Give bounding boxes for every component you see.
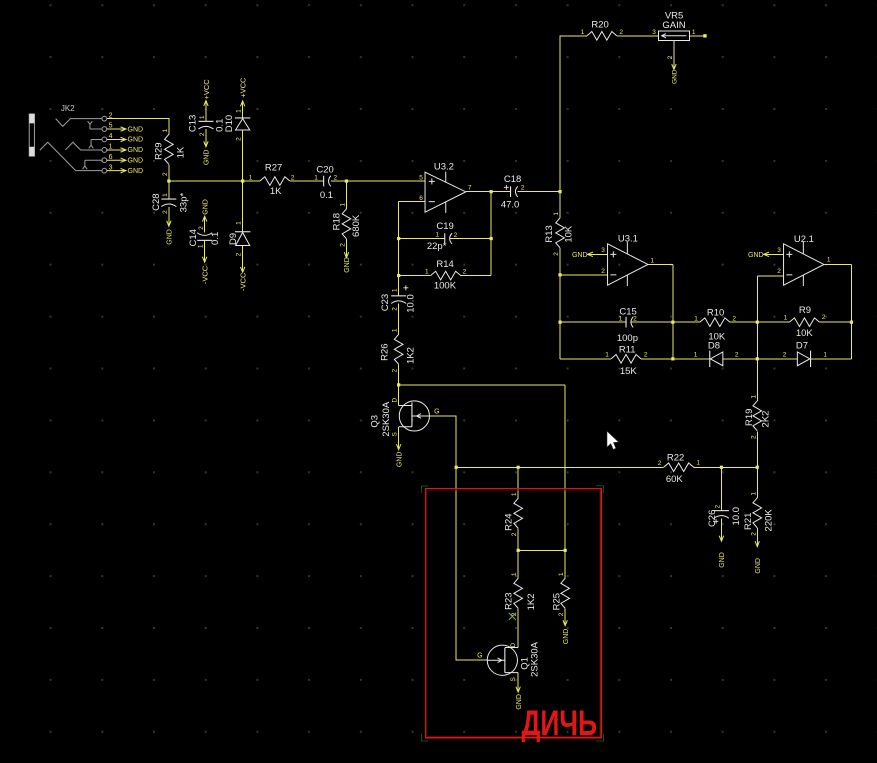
svg-text:10.0: 10.0 bbox=[406, 294, 417, 313]
svg-text:2: 2 bbox=[162, 210, 169, 214]
resistor R18 bbox=[345, 181, 347, 209]
ground port below R25 bbox=[564, 608, 566, 625]
svg-text:R29: R29 bbox=[153, 142, 164, 159]
svg-text:2: 2 bbox=[658, 460, 662, 467]
svg-text:3: 3 bbox=[601, 247, 605, 254]
-VCC power port below D9 bbox=[242, 246, 244, 272]
svg-text:1: 1 bbox=[236, 109, 243, 113]
svg-text:S: S bbox=[510, 676, 517, 681]
svg-text:1: 1 bbox=[558, 572, 565, 576]
svg-text:1: 1 bbox=[249, 174, 253, 181]
node R10 right bbox=[756, 321, 759, 324]
svg-text:2: 2 bbox=[735, 352, 739, 359]
wire C23 to R26 bbox=[398, 303, 400, 334]
diode D7 bbox=[757, 358, 797, 360]
svg-text:C20: C20 bbox=[316, 165, 333, 176]
mouse cursor bbox=[607, 431, 619, 450]
svg-text:U2.1: U2.1 bbox=[794, 234, 814, 245]
svg-text:680K: 680K bbox=[351, 214, 362, 237]
svg-text:C28: C28 bbox=[151, 193, 162, 210]
highlight box inner shadow bbox=[427, 490, 600, 737]
svg-text:7: 7 bbox=[468, 185, 472, 192]
svg-text:2: 2 bbox=[511, 532, 518, 536]
svg-text:GND: GND bbox=[572, 252, 588, 259]
svg-text:1: 1 bbox=[619, 315, 623, 322]
svg-text:2: 2 bbox=[644, 352, 648, 359]
wire R26 to Q3 drain node bbox=[398, 364, 400, 385]
wire U2.1 pin2 bbox=[757, 275, 783, 277]
wire JK2 pin2 to R29 bbox=[107, 119, 169, 135]
svg-text:D9: D9 bbox=[228, 233, 239, 245]
node R13 to U3.1 inverting input bbox=[558, 273, 561, 276]
svg-text:2: 2 bbox=[553, 252, 560, 256]
capacitor C28 bbox=[168, 181, 170, 199]
svg-text:2: 2 bbox=[463, 268, 467, 275]
svg-text:GND: GND bbox=[719, 552, 726, 568]
ground port below C28 bbox=[168, 207, 170, 226]
svg-text:2: 2 bbox=[340, 243, 347, 247]
svg-text:1: 1 bbox=[827, 256, 831, 263]
svg-text:R23: R23 bbox=[503, 592, 514, 609]
svg-text:GND: GND bbox=[128, 137, 144, 144]
svg-text:C23: C23 bbox=[380, 294, 391, 311]
resistor R21 bbox=[756, 467, 758, 498]
svg-text:C26: C26 bbox=[707, 510, 718, 527]
wire U2.1 output bbox=[824, 263, 852, 265]
svg-text:R19: R19 bbox=[744, 409, 755, 426]
svg-text:100p: 100p bbox=[617, 333, 638, 344]
svg-text:1: 1 bbox=[784, 314, 788, 321]
svg-text:R26: R26 bbox=[379, 343, 390, 360]
wire U2.1 output column bbox=[850, 264, 852, 358]
capacitor C15 bbox=[560, 321, 626, 323]
svg-text:1: 1 bbox=[823, 352, 827, 359]
ground port at U3.1 pin3 bbox=[588, 253, 608, 255]
resistor R26 bbox=[394, 334, 403, 364]
svg-text:C13: C13 bbox=[188, 115, 199, 132]
svg-text:2: 2 bbox=[392, 368, 399, 372]
node R24 top bbox=[517, 466, 520, 469]
svg-text:15K: 15K bbox=[620, 366, 638, 377]
svg-text:1: 1 bbox=[694, 352, 698, 359]
svg-text:60K: 60K bbox=[666, 474, 684, 485]
capacitor C23 bbox=[391, 295, 406, 297]
node Q3 drain bbox=[397, 383, 400, 386]
svg-text:+VCC: +VCC bbox=[239, 77, 248, 98]
svg-text:G: G bbox=[434, 409, 439, 416]
svg-text:Q3: Q3 bbox=[370, 415, 381, 428]
svg-text:S: S bbox=[392, 431, 399, 436]
svg-text:G: G bbox=[477, 653, 482, 660]
svg-text:GND: GND bbox=[344, 257, 351, 273]
wire R20 to VR5 pin3 bbox=[617, 35, 658, 37]
JK2 tip contact arm bbox=[56, 119, 102, 127]
svg-text:ДИЧЬ: ДИЧЬ bbox=[522, 704, 598, 743]
node gate column / R22 row bbox=[455, 466, 458, 469]
svg-text:1: 1 bbox=[605, 352, 609, 359]
wire R29 to input node bbox=[168, 164, 170, 181]
capacitor C14 bbox=[197, 233, 212, 236]
op-amp U2.1 bbox=[784, 244, 824, 285]
svg-text:1: 1 bbox=[236, 221, 243, 225]
svg-text:1: 1 bbox=[650, 257, 654, 264]
svg-text:2: 2 bbox=[236, 137, 243, 141]
wire feedback right column bbox=[490, 192, 492, 276]
resistor R22 bbox=[664, 463, 694, 472]
op-amp U3.2 bbox=[425, 172, 466, 212]
svg-text:2: 2 bbox=[392, 307, 399, 311]
selection corner marks bbox=[422, 486, 604, 741]
wire VR5 pin2 to ground bbox=[673, 40, 675, 69]
svg-text:1K2: 1K2 bbox=[526, 593, 537, 610]
svg-text:2: 2 bbox=[777, 268, 781, 275]
svg-text:10K: 10K bbox=[563, 225, 574, 243]
svg-text:R25: R25 bbox=[551, 593, 562, 610]
op-amp U3.1 bbox=[608, 244, 648, 285]
svg-text:2: 2 bbox=[558, 612, 565, 616]
svg-text:D10: D10 bbox=[224, 115, 235, 132]
svg-text:1: 1 bbox=[392, 288, 399, 292]
svg-text:C19: C19 bbox=[436, 221, 453, 232]
svg-text:2: 2 bbox=[750, 532, 757, 536]
svg-text:2: 2 bbox=[601, 268, 605, 275]
wire C20 to U3.2 pin5 bbox=[331, 180, 425, 182]
svg-text:GND: GND bbox=[396, 452, 403, 468]
wire node row in box bbox=[518, 549, 565, 551]
svg-text:1K: 1K bbox=[175, 146, 186, 158]
svg-text:R13: R13 bbox=[544, 225, 555, 242]
svg-text:C18: C18 bbox=[504, 174, 521, 185]
ground port at U2.1 pin3 bbox=[764, 253, 784, 255]
wire VR5 pin1 stub bbox=[690, 35, 704, 37]
capacitor C13 bbox=[198, 120, 213, 122]
wire C18 to gain node bbox=[518, 191, 560, 193]
svg-text:2: 2 bbox=[291, 174, 295, 181]
svg-text:2: 2 bbox=[667, 55, 674, 59]
svg-text:2: 2 bbox=[783, 352, 787, 359]
svg-text:1: 1 bbox=[199, 115, 206, 119]
wire input bus to R27 bbox=[169, 180, 260, 182]
node input junction at R29/C28 bbox=[167, 179, 170, 182]
ERC marker at R23 pin2 bbox=[509, 613, 516, 620]
wire Q1 source to ground bbox=[517, 673, 519, 692]
svg-text:GND: GND bbox=[204, 150, 211, 166]
ground port below R21 bbox=[756, 528, 758, 547]
capacitor C18 bbox=[510, 186, 512, 197]
diode D10 bbox=[242, 101, 244, 118]
wire drain down to Q3 bbox=[398, 385, 400, 406]
node R19/R21/R22 bbox=[756, 466, 759, 469]
transistor Q1 2SK30A bbox=[487, 645, 517, 675]
svg-text:1: 1 bbox=[198, 244, 205, 248]
ground port below R18 bbox=[345, 239, 347, 258]
svg-text:3: 3 bbox=[652, 29, 656, 36]
wire R22 row bbox=[456, 466, 663, 468]
svg-text:JK2: JK2 bbox=[61, 104, 75, 113]
svg-text:0.1: 0.1 bbox=[210, 232, 221, 245]
svg-text:6: 6 bbox=[419, 195, 423, 202]
resistor R13 bbox=[559, 192, 561, 218]
svg-text:R24: R24 bbox=[503, 513, 514, 530]
resistor R11 bbox=[560, 358, 611, 360]
node gain column bbox=[558, 190, 561, 193]
svg-text:R14: R14 bbox=[436, 259, 453, 270]
node R24/R23 bbox=[517, 549, 520, 552]
svg-text:1: 1 bbox=[392, 328, 399, 332]
svg-text:1K: 1K bbox=[270, 186, 282, 197]
svg-text:1: 1 bbox=[162, 193, 169, 197]
node C19 left bbox=[397, 237, 400, 240]
wire R23 to Q1 drain bbox=[517, 608, 519, 647]
svg-text:2: 2 bbox=[454, 232, 458, 239]
ground port below C13 bbox=[205, 129, 207, 146]
svg-text:GND: GND bbox=[672, 69, 679, 84]
svg-text:1K2: 1K2 bbox=[405, 347, 416, 364]
wire D10 to input bus bbox=[242, 130, 244, 181]
svg-text:2: 2 bbox=[199, 132, 206, 136]
svg-text:GND: GND bbox=[128, 147, 144, 154]
svg-text:D8: D8 bbox=[708, 341, 720, 352]
transistor Q3 2SK30A bbox=[399, 401, 429, 431]
resistor R23 bbox=[517, 550, 519, 578]
svg-text:GND: GND bbox=[755, 558, 762, 574]
svg-text:1: 1 bbox=[425, 269, 429, 276]
svg-text:R9: R9 bbox=[799, 305, 811, 316]
svg-text:22p*: 22p* bbox=[427, 241, 447, 252]
capacitor C19 bbox=[399, 238, 445, 240]
svg-text:100K: 100K bbox=[434, 280, 457, 291]
svg-text:R18: R18 bbox=[332, 213, 343, 230]
resistor R10 bbox=[673, 321, 700, 323]
resistor R20 bbox=[587, 32, 617, 41]
JK2 ring contact arm bbox=[65, 142, 102, 150]
svg-text:-VCC: -VCC bbox=[239, 272, 248, 291]
svg-text:0.1: 0.1 bbox=[320, 190, 333, 201]
svg-text:2: 2 bbox=[732, 315, 736, 322]
svg-text:47.0: 47.0 bbox=[501, 200, 519, 211]
node C15 right / R10 left bbox=[671, 321, 674, 324]
svg-text:1: 1 bbox=[162, 129, 169, 133]
svg-text:U3.2: U3.2 bbox=[434, 162, 454, 173]
resistor R25 bbox=[564, 550, 566, 578]
+VCC power port above C13 bbox=[205, 101, 207, 121]
svg-text:1: 1 bbox=[581, 29, 585, 36]
node R9 right bbox=[850, 321, 853, 324]
svg-text:1: 1 bbox=[340, 203, 347, 207]
svg-text:10K: 10K bbox=[796, 328, 814, 339]
svg-text:2: 2 bbox=[822, 314, 826, 321]
node R25 top bbox=[564, 549, 567, 552]
diode D8 bbox=[673, 358, 710, 360]
connector JK2 plug body bbox=[29, 114, 34, 156]
svg-text:5: 5 bbox=[419, 175, 423, 182]
svg-text:GND: GND bbox=[128, 158, 144, 165]
svg-text:R20: R20 bbox=[591, 20, 608, 31]
JK2 GND power ports on pins 5 4 1 6 3 bbox=[107, 128, 126, 130]
wire U3.2 output bbox=[466, 191, 511, 193]
wire U3.1 output column bbox=[672, 264, 674, 358]
svg-text:2SK30A: 2SK30A bbox=[381, 401, 392, 437]
svg-text:220K: 220K bbox=[764, 509, 775, 532]
svg-text:1: 1 bbox=[511, 572, 518, 576]
svg-text:GND: GND bbox=[202, 199, 209, 215]
node C15 left bbox=[558, 321, 561, 324]
JK2 sleeve contact arm bbox=[40, 142, 102, 170]
resistor R14 bbox=[399, 275, 431, 277]
wire left feedback column U3.1 bbox=[559, 275, 561, 359]
capacitor C26 bbox=[720, 467, 722, 510]
node R22 right / C26 bbox=[720, 466, 723, 469]
wire R27 to C20 bbox=[290, 180, 324, 182]
svg-text:1: 1 bbox=[314, 175, 318, 182]
svg-text:1: 1 bbox=[750, 395, 757, 399]
svg-text:R10: R10 bbox=[707, 307, 724, 318]
resistor R9 bbox=[757, 321, 789, 323]
svg-text:1: 1 bbox=[553, 212, 560, 216]
svg-text:1: 1 bbox=[750, 492, 757, 496]
svg-text:3: 3 bbox=[777, 247, 781, 254]
resistor R19 bbox=[756, 431, 758, 467]
svg-text:GND: GND bbox=[128, 126, 144, 133]
svg-text:R22: R22 bbox=[667, 453, 684, 464]
highlight box outer bbox=[425, 489, 601, 738]
svg-text:D: D bbox=[510, 642, 517, 647]
wire U3.1 output bbox=[648, 263, 673, 265]
capacitor C20 bbox=[323, 176, 325, 187]
wire Q3 source to ground bbox=[398, 427, 400, 449]
svg-text:GND: GND bbox=[167, 229, 174, 245]
svg-text:2: 2 bbox=[619, 29, 623, 36]
svg-text:2SK30A: 2SK30A bbox=[529, 641, 540, 677]
svg-text:GAIN: GAIN bbox=[662, 20, 685, 31]
node C19 right bbox=[490, 237, 493, 240]
wire U2.1 feedback column bbox=[756, 276, 758, 401]
svg-text:R11: R11 bbox=[619, 345, 636, 356]
wire U3.2 pin6 bbox=[399, 201, 425, 203]
svg-text:+VCC: +VCC bbox=[202, 79, 211, 100]
svg-text:C14: C14 bbox=[188, 229, 199, 246]
JK2 switch contact pin6 bbox=[83, 160, 103, 169]
node feedback to output bbox=[490, 190, 493, 193]
JK2 switch contact pin4 bbox=[89, 139, 102, 148]
ground port below C26 bbox=[720, 518, 722, 540]
svg-text:1: 1 bbox=[694, 315, 698, 322]
ground port above C14 bbox=[204, 217, 206, 233]
svg-text:2: 2 bbox=[521, 185, 525, 192]
resistor R27 bbox=[260, 177, 290, 186]
svg-text:10.0: 10.0 bbox=[731, 507, 742, 525]
wire Q3 drain node to right column bbox=[399, 384, 565, 386]
wire to U3.1 pin2 bbox=[560, 274, 608, 276]
wire gain node up to R20 bbox=[560, 36, 587, 192]
svg-text:1: 1 bbox=[511, 492, 518, 496]
svg-text:33p*: 33p* bbox=[178, 192, 189, 212]
resistor R24 bbox=[517, 467, 519, 498]
svg-text:1: 1 bbox=[435, 232, 439, 239]
svg-text:-VCC: -VCC bbox=[201, 265, 210, 284]
svg-text:2: 2 bbox=[334, 175, 338, 182]
wire drain column down bbox=[564, 385, 566, 550]
wire R24 to node bbox=[517, 528, 519, 550]
svg-text:R27: R27 bbox=[265, 162, 282, 173]
resistor R29 bbox=[165, 134, 174, 164]
svg-text:1: 1 bbox=[692, 29, 696, 36]
svg-text:R21: R21 bbox=[743, 513, 754, 530]
node C20/R18 bbox=[345, 179, 348, 182]
svg-text:D: D bbox=[392, 397, 399, 402]
svg-text:D7: D7 bbox=[796, 341, 808, 352]
svg-text:2: 2 bbox=[236, 252, 243, 256]
node input bus / clamp diodes bbox=[241, 179, 244, 182]
svg-text:GND: GND bbox=[748, 252, 764, 259]
svg-text:GND: GND bbox=[563, 629, 570, 645]
node R11 right / D8 left bbox=[671, 357, 674, 360]
svg-text:2: 2 bbox=[750, 435, 757, 439]
svg-text:U3.1: U3.1 bbox=[618, 233, 638, 244]
svg-text:1: 1 bbox=[696, 460, 700, 467]
svg-text:2: 2 bbox=[714, 504, 721, 508]
+VCC power port above D10 bbox=[240, 101, 244, 106]
svg-text:2: 2 bbox=[633, 315, 637, 322]
JK2 pin circles bbox=[102, 116, 107, 121]
JK2 switch contact pin5 bbox=[88, 121, 102, 129]
wire feedback left column bbox=[398, 202, 400, 296]
svg-text:2K2: 2K2 bbox=[760, 411, 771, 428]
-VCC power port below C14 bbox=[204, 240, 206, 261]
wire Q3 gate net bbox=[430, 416, 488, 660]
diode D9 bbox=[242, 181, 244, 232]
node D8 right bbox=[756, 357, 759, 360]
svg-text:2: 2 bbox=[162, 172, 169, 176]
node R14/C23 left bbox=[397, 274, 400, 277]
svg-text:2: 2 bbox=[198, 226, 205, 230]
potentiometer VR5 bbox=[658, 31, 689, 40]
svg-text:GND: GND bbox=[128, 168, 144, 175]
